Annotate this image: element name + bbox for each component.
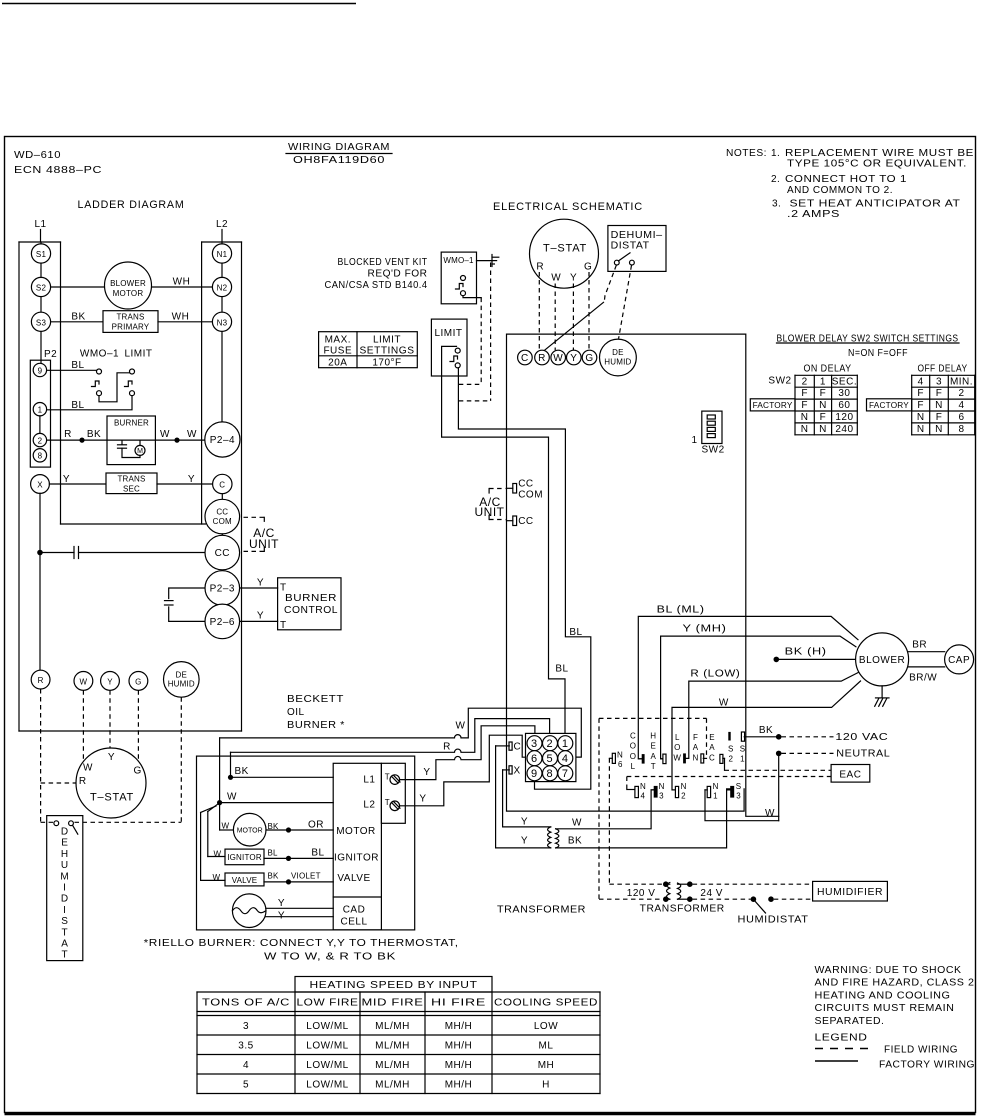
- dehumidistat box (ladder): [47, 816, 83, 961]
- ground (blower): [875, 686, 889, 706]
- motor circle: [233, 813, 266, 846]
- field wiring dashed enclosure: [599, 718, 707, 899]
- svg-text:LIMIT: LIMIT: [434, 328, 462, 339]
- svg-text:S2: S2: [36, 284, 47, 293]
- svg-text:MH/H: MH/H: [445, 1041, 473, 1052]
- wire R to pin 2: [231, 719, 550, 753]
- terminal W: [74, 672, 93, 691]
- terminal G (unit): [582, 350, 597, 365]
- svg-text:W: W: [222, 821, 230, 830]
- svg-text:LIMIT: LIMIT: [124, 349, 152, 360]
- svg-text:1: 1: [713, 792, 718, 801]
- svg-text:LOW/ML: LOW/ML: [306, 1041, 348, 1052]
- svg-text:4: 4: [641, 792, 646, 801]
- svg-text:OFF DELAY: OFF DELAY: [918, 364, 968, 375]
- svg-text:CONNECT HOT TO 1: CONNECT HOT TO 1: [785, 174, 907, 185]
- svg-text:N: N: [693, 753, 699, 762]
- svg-text:BL: BL: [311, 848, 324, 859]
- svg-text:W: W: [227, 792, 237, 803]
- svg-text:I: I: [63, 883, 66, 894]
- svg-text:CIRCUITS MUST REMAIN: CIRCUITS MUST REMAIN: [815, 1003, 955, 1014]
- svg-text:2: 2: [681, 792, 686, 801]
- svg-text:ML/MH: ML/MH: [375, 1041, 410, 1052]
- svg-text:R: R: [536, 262, 544, 273]
- svg-text:S: S: [728, 744, 734, 753]
- terminal P2-3: [205, 571, 240, 606]
- svg-text:LOW: LOW: [534, 1021, 558, 1032]
- svg-text:BK: BK: [71, 312, 85, 323]
- svg-text:T: T: [651, 762, 656, 771]
- svg-text:WARNING: DUE TO SHOCK: WARNING: DUE TO SHOCK: [815, 965, 962, 976]
- svg-text:N: N: [935, 424, 943, 435]
- limit inner bracket wire: [442, 346, 565, 736]
- svg-text:T: T: [385, 773, 390, 782]
- contact COOL: [639, 754, 645, 764]
- svg-text:D: D: [61, 827, 69, 838]
- wire motor to module: [266, 829, 333, 831]
- terminal N2: [212, 277, 231, 296]
- switch WMO-1 (schematic): [456, 276, 466, 296]
- t-stat circle (ladder): [76, 748, 146, 818]
- svg-text:F: F: [917, 388, 924, 399]
- svg-text:LIMIT: LIMIT: [373, 335, 401, 346]
- label BECKETT OIL BURNER: [287, 694, 345, 731]
- svg-text:Y: Y: [419, 794, 426, 805]
- junction dot: [663, 881, 669, 887]
- svg-text:W: W: [213, 873, 221, 882]
- svg-text:CAD: CAD: [343, 905, 366, 916]
- svg-text:OIL: OIL: [287, 707, 305, 718]
- svg-text:BL: BL: [268, 849, 279, 858]
- terminal X: [31, 475, 50, 494]
- field wire N4 row: [627, 777, 831, 790]
- svg-text:N3: N3: [217, 318, 228, 327]
- svg-text:VALVE: VALVE: [232, 876, 258, 885]
- top rule line: [2, 3, 356, 5]
- svg-text:L: L: [631, 762, 636, 771]
- svg-text:COOLING SPEED: COOLING SPEED: [494, 998, 598, 1009]
- svg-text:N: N: [819, 400, 827, 411]
- svg-text:HEATING SPEED BY INPUT: HEATING SPEED BY INPUT: [310, 980, 478, 991]
- svg-text:BK: BK: [235, 766, 249, 777]
- terminal C (module): [496, 742, 522, 753]
- svg-text:6: 6: [958, 412, 964, 423]
- svg-text:N: N: [617, 751, 623, 760]
- field wire W down: [82, 690, 84, 761]
- svg-text:ML/MH: ML/MH: [375, 1021, 410, 1032]
- unit enclosure box: [507, 334, 779, 816]
- svg-text:L2: L2: [216, 219, 228, 230]
- legend field wiring sample: [815, 1045, 958, 1056]
- svg-text:X: X: [514, 766, 521, 777]
- burner contact and motor M: [118, 440, 146, 457]
- junction dot on X rail: [37, 550, 43, 556]
- svg-text:M: M: [137, 448, 143, 455]
- ladder bottom edge: [19, 730, 242, 732]
- terminal W (unit): [551, 350, 566, 365]
- valve box: [225, 873, 264, 886]
- svg-text:O: O: [630, 742, 636, 751]
- field wire dehumidistat to R: [542, 265, 616, 352]
- heating speed table: [197, 977, 600, 1094]
- svg-text:O: O: [674, 743, 680, 752]
- wire ignitor to module: [264, 857, 333, 859]
- svg-text:IGNITOR: IGNITOR: [227, 853, 262, 862]
- svg-text:X: X: [37, 481, 43, 490]
- svg-text:REQ'D FOR: REQ'D FOR: [368, 269, 428, 280]
- wire S3 to trans primary: [51, 321, 103, 323]
- field wire DE HUMID down: [75, 697, 182, 822]
- wire P2-6 to burner control: [240, 620, 278, 622]
- burner control module box: [333, 763, 405, 930]
- svg-text:UNIT: UNIT: [249, 537, 279, 551]
- svg-text:P2–6: P2–6: [210, 617, 235, 628]
- svg-text:A: A: [61, 939, 68, 950]
- svg-text:TONS OF A/C: TONS OF A/C: [202, 998, 290, 1009]
- svg-text:WMO–1: WMO–1: [443, 256, 474, 265]
- svg-text:1.: 1.: [771, 148, 780, 159]
- svg-text:SEC: SEC: [123, 485, 140, 494]
- svg-text:LOW/ML: LOW/ML: [306, 1060, 348, 1071]
- wire P2-3 P2-6 loop with contact: [165, 588, 205, 621]
- field wire R to t-stat: [41, 689, 77, 822]
- note riello burner: [144, 938, 459, 963]
- svg-text:NOTES:: NOTES:: [726, 148, 767, 159]
- junction dot BK: [228, 775, 233, 780]
- svg-text:2: 2: [958, 388, 964, 399]
- svg-text:LOW/ML: LOW/ML: [306, 1080, 348, 1091]
- svg-text:F: F: [820, 412, 827, 423]
- svg-text:Y: Y: [188, 474, 195, 485]
- contact HEAT: [661, 754, 666, 764]
- svg-text:F: F: [801, 400, 808, 411]
- pin 1: [558, 736, 573, 751]
- svg-text:7: 7: [562, 768, 569, 780]
- svg-text:FACTORY WIRING: FACTORY WIRING: [879, 1060, 975, 1071]
- wire trans sec to C: [157, 483, 213, 485]
- svg-text:4: 4: [918, 376, 924, 387]
- wire CC COM to CC: [221, 534, 223, 535]
- svg-text:OR: OR: [308, 820, 324, 831]
- svg-text:R: R: [38, 676, 44, 685]
- junction dot NEUTRAL: [776, 751, 782, 757]
- svg-text:SW2: SW2: [768, 376, 791, 387]
- sw2 on delay table: [795, 375, 857, 435]
- ground (WMO-1): [492, 255, 499, 267]
- svg-text:P2–3: P2–3: [210, 584, 235, 595]
- svg-text:H: H: [650, 732, 656, 741]
- svg-text:AND COMMON TO 2.: AND COMMON TO 2.: [787, 185, 893, 196]
- junction dot: [286, 879, 291, 884]
- svg-text:3: 3: [736, 792, 741, 801]
- terminal R (ladder tstat): [31, 670, 50, 689]
- terminal P2-4: [205, 422, 240, 457]
- svg-text:E: E: [651, 742, 657, 751]
- svg-text:AND FIRE HAZARD, CLASS 2: AND FIRE HAZARD, CLASS 2: [815, 978, 975, 989]
- svg-text:N: N: [819, 424, 827, 435]
- wire transformer W to N3: [556, 790, 654, 829]
- svg-text:A: A: [693, 743, 699, 752]
- svg-text:BECKETT: BECKETT: [287, 694, 344, 705]
- wire W to pin 4: [220, 708, 582, 757]
- svg-text:H: H: [542, 1080, 550, 1091]
- right rail outline: [202, 242, 242, 731]
- pin 8: [543, 766, 558, 781]
- contact FAN: [701, 754, 707, 763]
- svg-text:HUMIDIFIER: HUMIDIFIER: [817, 887, 883, 898]
- svg-text:D: D: [61, 894, 69, 905]
- svg-text:COM: COM: [213, 517, 232, 526]
- svg-text:R (LOW): R (LOW): [690, 669, 740, 680]
- svg-text:E: E: [61, 838, 68, 849]
- svg-text:BK: BK: [268, 872, 280, 881]
- terminal C (unit): [518, 350, 533, 365]
- svg-text:T–STAT: T–STAT: [90, 792, 134, 804]
- svg-text:LOW/ML: LOW/ML: [306, 1021, 348, 1032]
- svg-text:8: 8: [38, 452, 43, 461]
- svg-text:Y: Y: [107, 677, 113, 686]
- wire C to CC COM: [221, 494, 223, 500]
- svg-text:TRANS: TRANS: [117, 475, 145, 484]
- switch WMO-1 (ladder): [92, 369, 102, 396]
- svg-text:G: G: [134, 765, 142, 776]
- svg-text:S: S: [61, 916, 68, 927]
- svg-text:W: W: [187, 429, 197, 440]
- svg-text:LADDER DIAGRAM: LADDER DIAGRAM: [78, 199, 185, 211]
- svg-text:MOTOR: MOTOR: [336, 826, 376, 837]
- node L1: [34, 219, 46, 242]
- svg-text:N: N: [935, 400, 943, 411]
- svg-text:120 V: 120 V: [627, 888, 656, 899]
- svg-text:BL: BL: [555, 664, 568, 675]
- svg-text:S: S: [740, 744, 746, 753]
- svg-text:O: O: [630, 752, 636, 761]
- svg-text:WH: WH: [172, 312, 190, 323]
- label COOL vertical: [630, 732, 636, 772]
- svg-text:1: 1: [740, 754, 745, 763]
- title WIRING DIAGRAM: [286, 142, 392, 166]
- svg-text:170°F: 170°F: [372, 357, 401, 368]
- svg-text:EAC: EAC: [839, 770, 861, 781]
- field wire 120 VAC: [782, 736, 834, 738]
- svg-text:P2–4: P2–4: [210, 435, 235, 446]
- svg-text:BURNER *: BURNER *: [287, 720, 345, 731]
- svg-text:N: N: [640, 782, 646, 791]
- svg-text:T: T: [61, 927, 68, 938]
- terminal CC: [205, 535, 240, 570]
- svg-text:C: C: [521, 353, 529, 364]
- svg-text:MOTOR: MOTOR: [113, 289, 144, 298]
- beckett burner box: [197, 756, 415, 930]
- wire P2-3 to burner control: [240, 587, 278, 589]
- terminal N1: [212, 244, 231, 263]
- svg-text:SETTINGS: SETTINGS: [360, 345, 415, 356]
- terminal C: [213, 474, 232, 493]
- svg-text:L2: L2: [363, 800, 375, 811]
- svg-text:3.5: 3.5: [238, 1041, 253, 1052]
- svg-text:SEC.: SEC.: [832, 376, 857, 387]
- wire BK row: [231, 752, 334, 777]
- svg-text:Y (MH): Y (MH): [683, 624, 727, 635]
- svg-text:W: W: [214, 849, 222, 858]
- screw terminal L1: [390, 775, 400, 785]
- pin 2: [543, 736, 558, 751]
- terminal N6: [609, 751, 623, 769]
- blower motor: [856, 633, 909, 686]
- svg-text:3: 3: [243, 1021, 249, 1032]
- svg-text:A: A: [709, 743, 715, 752]
- wire LIMIT switch to pin 9 branch: [458, 368, 590, 789]
- wire X rail down: [39, 493, 41, 671]
- svg-text:BK: BK: [568, 836, 582, 847]
- pin 2: [33, 433, 46, 446]
- wire L1 to pin 3: [400, 726, 535, 780]
- svg-text:T: T: [280, 583, 287, 594]
- svg-text:BK: BK: [268, 822, 280, 831]
- junction dot BK (H): [774, 657, 780, 663]
- switch LIMIT (ladder): [125, 369, 135, 396]
- svg-text:N=ON F=OFF: N=ON F=OFF: [848, 348, 908, 359]
- transformer 120v/24v coils: [666, 883, 690, 900]
- svg-text:F: F: [693, 733, 698, 742]
- svg-text:120 VAC: 120 VAC: [835, 732, 888, 743]
- svg-text:U: U: [61, 860, 69, 871]
- svg-text:4: 4: [562, 753, 569, 765]
- LIMIT box (schematic): [431, 319, 467, 376]
- field wire alternate 1: [459, 298, 481, 385]
- svg-text:MOTOR: MOTOR: [237, 828, 263, 835]
- svg-text:Y: Y: [257, 578, 264, 589]
- svg-text:G: G: [135, 677, 141, 686]
- junction dot: [663, 896, 669, 902]
- field wire 24v to humidistat: [693, 898, 751, 900]
- EAC box: [831, 765, 870, 783]
- terminal Y (unit): [567, 350, 582, 365]
- svg-text:L1: L1: [34, 219, 46, 230]
- svg-text:N1: N1: [217, 250, 228, 259]
- svg-text:2.: 2.: [771, 174, 780, 185]
- max fuse limit settings table: [319, 332, 418, 369]
- wire X to trans sec: [49, 483, 106, 485]
- t-stat circle (schematic): [530, 219, 599, 288]
- svg-text:P2: P2: [44, 349, 57, 360]
- factory box (off delay): [867, 399, 912, 411]
- terminal Y: [101, 672, 120, 691]
- wire trans primary to N3: [158, 321, 212, 323]
- svg-text:Y: Y: [521, 816, 528, 827]
- field wire G down: [137, 690, 139, 761]
- svg-text:G: G: [584, 262, 592, 273]
- wire W branch to motor: [220, 803, 234, 830]
- svg-text:ECN 4888–PC: ECN 4888–PC: [14, 165, 102, 176]
- label blocked vent kit: [325, 257, 428, 291]
- WMO-1 box (schematic): [441, 252, 476, 304]
- svg-text:NEUTRAL: NEUTRAL: [836, 748, 890, 759]
- svg-text:H: H: [61, 849, 69, 860]
- svg-text:LOW FIRE: LOW FIRE: [297, 998, 359, 1009]
- legend factory wiring sample: [815, 1060, 975, 1071]
- terminal X (module): [503, 766, 521, 777]
- wire W branch to valve: [201, 806, 225, 880]
- wire W branch to ignitor: [208, 804, 225, 856]
- svg-text:3: 3: [531, 738, 538, 750]
- svg-text:FUSE: FUSE: [323, 345, 352, 356]
- svg-text:F: F: [936, 412, 943, 423]
- svg-text:R: R: [79, 776, 87, 787]
- svg-text:BR/W: BR/W: [909, 673, 937, 684]
- terminal G: [129, 672, 148, 691]
- terminal N3: [651, 782, 665, 800]
- svg-text:4: 4: [958, 400, 964, 411]
- svg-text:HI FIRE: HI FIRE: [431, 998, 486, 1009]
- transformer secondary box: [106, 473, 157, 494]
- pin 9: [33, 363, 46, 376]
- junction dot: [79, 438, 84, 443]
- wire Y (MH) tap: [661, 636, 856, 759]
- wire S rail: [40, 242, 42, 363]
- svg-text:W: W: [551, 273, 561, 284]
- field wire FAN: [706, 718, 708, 758]
- svg-text:ON DELAY: ON DELAY: [804, 364, 852, 375]
- node L2: [216, 219, 228, 242]
- terminal P2-6: [205, 604, 240, 639]
- svg-text:T: T: [280, 620, 287, 631]
- terminal CC (a/c): [507, 516, 534, 527]
- svg-text:N2: N2: [217, 284, 228, 293]
- svg-text:W: W: [83, 762, 93, 773]
- svg-text:I: I: [63, 905, 66, 916]
- svg-text:G: G: [585, 353, 593, 364]
- pin 4: [558, 751, 573, 766]
- junction dot 120 VAC: [776, 734, 782, 740]
- svg-text:5: 5: [243, 1080, 249, 1091]
- contact S1: [740, 732, 746, 763]
- svg-text:C: C: [514, 742, 522, 753]
- svg-text:BLOCKED VENT KIT: BLOCKED VENT KIT: [338, 257, 428, 268]
- svg-text:WH: WH: [173, 277, 191, 288]
- svg-text:FACTORY: FACTORY: [753, 401, 793, 410]
- svg-text:BLOWER: BLOWER: [859, 655, 905, 666]
- field wire tstat R: [538, 272, 540, 350]
- svg-text:N: N: [801, 412, 809, 423]
- wire LIMIT switch to pin 1: [47, 396, 132, 410]
- svg-text:30: 30: [838, 388, 850, 399]
- svg-text:6: 6: [618, 760, 623, 769]
- svg-text:TRANSFORMER: TRANSFORMER: [640, 904, 725, 915]
- svg-text:240: 240: [835, 424, 853, 435]
- pin 7: [558, 766, 573, 781]
- pin 6: [527, 751, 542, 766]
- svg-text:DE: DE: [176, 670, 188, 679]
- svg-text:MH/H: MH/H: [445, 1021, 473, 1032]
- field wire NEUTRAL: [782, 752, 834, 754]
- svg-text:L1: L1: [363, 774, 375, 785]
- terminal S3: [31, 312, 50, 331]
- svg-text:MIN.: MIN.: [950, 376, 973, 387]
- svg-text:W: W: [572, 818, 582, 829]
- svg-text:BK: BK: [87, 429, 101, 440]
- svg-text:*RIELLO BURNER: CONNECT Y,Y T: *RIELLO BURNER: CONNECT Y,Y TO THERMOSTA…: [144, 938, 459, 949]
- svg-text:N: N: [659, 782, 665, 791]
- field wire Y down: [109, 690, 111, 748]
- field wire alternate 2: [459, 263, 491, 401]
- svg-text:3.: 3.: [772, 199, 781, 210]
- wire WMO-1 switch out: [463, 296, 481, 298]
- svg-text:VALVE: VALVE: [337, 873, 370, 884]
- pin 5: [543, 751, 558, 766]
- wire BK (H) tap: [776, 658, 855, 660]
- svg-text:N: N: [917, 424, 925, 435]
